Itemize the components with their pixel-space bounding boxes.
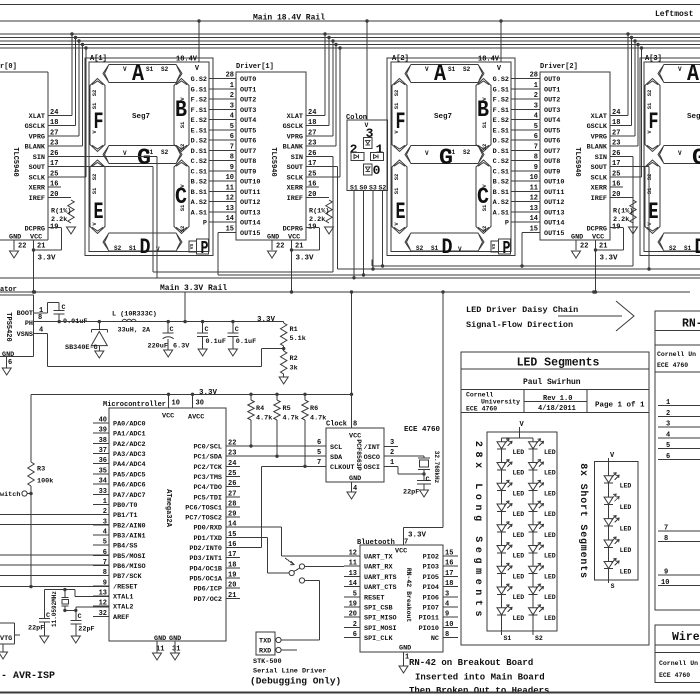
svg-text:PB5/MOSI: PB5/MOSI: [113, 553, 146, 561]
segment G of A[3]: [658, 146, 700, 164]
svg-text:DCPRG: DCPRG: [587, 226, 607, 234]
svg-text:SPI_MOSI: SPI_MOSI: [364, 625, 397, 633]
wire PH output node: [33, 320, 283, 323]
svg-text:S1: S1: [431, 245, 439, 252]
svg-text:LED: LED: [620, 504, 632, 511]
LED long segment row 8 left: [497, 584, 524, 601]
wire PD0/RXD to RN-42 UART_TX: [226, 527, 344, 556]
svg-text:R(1%): R(1%): [51, 208, 71, 216]
svg-text:S1: S1: [684, 245, 692, 252]
svg-text:Cornell: Cornell: [466, 392, 493, 399]
svg-text:LED: LED: [513, 490, 525, 497]
svg-text:13: 13: [530, 205, 538, 213]
svg-text:PCF8563P: PCF8563P: [355, 439, 362, 470]
voltage regulator U1 TPS5420: [0, 286, 48, 368]
svg-text:A.S2: A.S2: [493, 199, 509, 207]
svg-text:PIO4: PIO4: [423, 584, 439, 592]
svg-text:PC5/TDI: PC5/TDI: [193, 494, 222, 502]
LED long segment row 4 left: [497, 501, 524, 518]
clock chip U3 PCF8563P: [326, 421, 441, 494]
svg-text:S1: S1: [448, 149, 456, 156]
svg-text:B.S1: B.S1: [191, 189, 207, 197]
capacitor C 0.1uF #2: [227, 322, 256, 356]
svg-text:PD6/ICP: PD6/ICP: [193, 586, 222, 594]
svg-text:F.S1: F.S1: [191, 107, 207, 115]
svg-text:SB340E-G: SB340E-G: [65, 344, 98, 352]
svg-text:S2: S2: [481, 226, 488, 233]
svg-text:S2: S2: [379, 185, 387, 192]
svg-text:D: D: [442, 235, 453, 260]
svg-text:GND: GND: [154, 635, 166, 643]
svg-text:5: 5: [534, 123, 538, 131]
segment D of A[3]: [658, 233, 700, 251]
LED long segment row 6 left: [497, 543, 524, 560]
svg-text:V: V: [123, 150, 127, 157]
svg-text:S0: S0: [360, 185, 368, 192]
group 8x short segment LEDs: [577, 452, 638, 580]
svg-text:S2: S2: [161, 149, 169, 156]
connector RN-42 sheet pins 1-6: [658, 399, 700, 461]
svg-text:VCC: VCC: [162, 413, 174, 421]
inductor L 33uH: [112, 311, 157, 335]
svg-text:S1: S1: [481, 121, 488, 128]
svg-text:C.S1: C.S1: [191, 168, 207, 176]
svg-text:Wirele: Wirele: [672, 631, 700, 644]
svg-text:Serial Line Driver: Serial Line Driver: [253, 668, 326, 676]
segment A of A[1]: [103, 65, 182, 83]
svg-text:PA3/ADC3: PA3/ADC3: [113, 451, 146, 459]
svg-text:21: 21: [37, 243, 45, 251]
LED long segment row 5 right: [529, 522, 556, 539]
LED short segment row 3: [604, 516, 631, 533]
svg-text:6: 6: [317, 439, 321, 447]
svg-text:S3: S3: [369, 185, 377, 192]
LED long segment row 6 right: [529, 543, 556, 560]
svg-text:OUT7: OUT7: [544, 148, 560, 156]
svg-text:PD0/RXD: PD0/RXD: [193, 525, 222, 533]
svg-text:V: V: [678, 66, 682, 73]
wire colon S3 drop: [371, 191, 374, 271]
svg-text:OUT13: OUT13: [544, 209, 564, 217]
LED driver Driver[0] TLC5940: [0, 63, 86, 242]
svg-text:PC0/SCL: PC0/SCL: [193, 444, 222, 452]
capacitor C 22pF #2: [70, 610, 94, 643]
sheet LED Segments title block: [461, 352, 649, 645]
svg-text:E.S2: E.S2: [493, 117, 509, 125]
svg-text:OUT14: OUT14: [240, 220, 260, 228]
svg-text:S2: S2: [393, 90, 400, 97]
svg-text:18.4V: 18.4V: [176, 56, 198, 64]
svg-text:12: 12: [530, 195, 538, 203]
wire driver VCC pin 21 to 3.3V rail: [594, 240, 618, 294]
svg-text:OUT9: OUT9: [240, 168, 256, 176]
svg-text:3.3V: 3.3V: [38, 255, 57, 263]
svg-text:1: 1: [534, 82, 538, 90]
svg-text:PD1/TXD: PD1/TXD: [193, 535, 222, 543]
svg-text:LED: LED: [513, 449, 525, 456]
svg-text:21: 21: [599, 243, 607, 251]
LED long segment row 4 right: [529, 501, 556, 518]
svg-text:OUT11: OUT11: [544, 189, 564, 197]
wire Driver[0] SIN net: [48, 157, 157, 278]
svg-text:OUT11: OUT11: [240, 189, 260, 197]
svg-text:OUT5: OUT5: [240, 127, 256, 135]
svg-text:S2: S2: [179, 226, 186, 233]
svg-text:PA4/ADC4: PA4/ADC4: [113, 461, 146, 469]
svg-text:SIN: SIN: [291, 154, 303, 162]
svg-text:OUT8: OUT8: [240, 158, 256, 166]
wire OUT15 route Driver[2]: [520, 233, 540, 268]
LED driver Driver[2] TLC5940: [540, 63, 642, 242]
svg-text:PA6/ADC6: PA6/ADC6: [113, 482, 146, 490]
svg-text:0: 0: [373, 163, 381, 178]
svg-text:VCC: VCC: [592, 234, 604, 242]
svg-text:G.S1: G.S1: [493, 86, 509, 94]
svg-text:OUT7: OUT7: [240, 148, 256, 156]
svg-text:GSCLK: GSCLK: [587, 123, 608, 131]
svg-text:PB0/T0: PB0/T0: [113, 502, 137, 510]
svg-text:GND: GND: [2, 351, 14, 359]
wires AVR-ISP header: [0, 514, 109, 586]
svg-text:11: 11: [530, 184, 538, 192]
sheet Wireless title block: [655, 625, 700, 683]
svg-text:22pF: 22pF: [28, 625, 44, 633]
LED short segment row 1: [604, 473, 631, 490]
bluetooth module U4 RN-42 breakout: [344, 539, 458, 666]
svg-text:VCC: VCC: [288, 234, 300, 242]
svg-text:22: 22: [276, 243, 284, 251]
resistor R(1%) 2.2k on IREF: [51, 197, 76, 234]
svg-text:SDA: SDA: [330, 454, 343, 462]
svg-text:VCC: VCC: [395, 548, 407, 556]
svg-text:28x Long Segments: 28x Long Segments: [472, 441, 483, 621]
svg-text:ATmega32A: ATmega32A: [164, 489, 172, 528]
svg-text:IREF: IREF: [591, 195, 607, 203]
group 28x long segment LEDs: [472, 421, 557, 631]
svg-text:28: 28: [530, 72, 538, 80]
svg-text:R5: R5: [283, 405, 291, 413]
wire 3.3V logic line: [31, 389, 352, 462]
resistor R4 4.7k: [248, 394, 273, 447]
svg-text:Paul Swirhun: Paul Swirhun: [523, 378, 581, 387]
wire 3.3V to bluetooth: [404, 292, 443, 547]
svg-text:5.1k: 5.1k: [290, 335, 306, 343]
svg-text:C.S2: C.S2: [191, 158, 207, 166]
svg-text:LED: LED: [544, 532, 556, 539]
svg-text:VCC: VCC: [30, 234, 42, 242]
svg-text:VS: VS: [491, 244, 497, 250]
svg-text:1: 1: [230, 82, 234, 90]
svg-text:6: 6: [230, 133, 234, 141]
svg-text:OSCO: OSCO: [364, 454, 380, 462]
wire PD1/TXD to switch: [226, 537, 289, 573]
svg-text:2.2k: 2.2k: [613, 216, 629, 224]
svg-text:8x Short Segments: 8x Short Segments: [577, 463, 589, 579]
segment E of A[2]: [392, 160, 407, 234]
svg-text:PIO11: PIO11: [419, 615, 439, 623]
wire daisy chain SOUT2: [610, 167, 651, 271]
svg-text:RN-42 on Breakout Board: RN-42 on Breakout Board: [409, 658, 533, 668]
connector RN-42 sheet pins 7-8: [658, 525, 700, 544]
svg-text:S1: S1: [146, 149, 154, 156]
svg-text:PB7/SCK: PB7/SCK: [113, 573, 142, 581]
wire OUT15 route Driver[1]: [218, 233, 700, 276]
LED driver Driver[1] TLC5940: [236, 63, 340, 242]
svg-text:/INT: /INT: [364, 444, 380, 452]
segment A of A[2]: [405, 65, 484, 83]
svg-text:PC4/TDO: PC4/TDO: [193, 484, 222, 492]
svg-text:LED: LED: [513, 553, 525, 560]
wire daisy chain SOUT0-SIN1: [48, 157, 333, 273]
svg-text:BLANK: BLANK: [587, 144, 608, 152]
svg-text:S1: S1: [91, 187, 98, 194]
svg-text:LED: LED: [513, 532, 525, 539]
svg-text:PB6/MISO: PB6/MISO: [113, 563, 146, 571]
svg-text:SCL: SCL: [330, 444, 342, 452]
svg-text:12: 12: [226, 195, 234, 203]
svg-text:D: D: [140, 235, 151, 260]
svg-text:BLANK: BLANK: [25, 144, 46, 152]
svg-text:21: 21: [295, 243, 303, 251]
svg-text:PB4/SS: PB4/SS: [113, 543, 137, 551]
svg-text:Page 1 of 1: Page 1 of 1: [595, 402, 645, 410]
svg-text:OUT10: OUT10: [240, 179, 260, 187]
svg-text:TLC5940: TLC5940: [269, 147, 277, 176]
colon LED D0: [364, 164, 373, 175]
svg-text:4.7k: 4.7k: [256, 415, 272, 423]
svg-text:V: V: [425, 150, 429, 157]
colon LED D2: [351, 153, 364, 161]
svg-text:Seg7: Seg7: [434, 113, 452, 121]
svg-text:LED: LED: [513, 615, 525, 622]
wire bus drops to Driver[0]: [70, 32, 87, 177]
segment F of A[2]: [392, 79, 407, 152]
label AVR-ISP: [1, 671, 55, 682]
svg-text:B.S2: B.S2: [191, 179, 207, 187]
segment G of A[1]: [103, 146, 182, 164]
svg-text:ECE 4760: ECE 4760: [466, 406, 497, 413]
display A[1] Seg7: [85, 55, 213, 260]
svg-text:Seg7: Seg7: [687, 113, 700, 121]
svg-text:DCPRG: DCPRG: [283, 226, 303, 234]
segment F of A[1]: [90, 79, 105, 152]
svg-text:S: S: [611, 583, 615, 590]
svg-text:OUT2: OUT2: [240, 97, 256, 105]
LED short segment row 2: [604, 494, 631, 511]
LED long segment row 2 left: [497, 460, 524, 477]
svg-text:100k: 100k: [37, 478, 53, 486]
svg-text:18.4V: 18.4V: [478, 56, 500, 64]
wire colon S0 drop: [362, 191, 365, 277]
svg-text:2: 2: [534, 92, 538, 100]
svg-text:4: 4: [534, 113, 538, 121]
svg-text:OUT15: OUT15: [240, 230, 260, 238]
svg-text:RN-42 Breakout: RN-42 Breakout: [405, 568, 412, 623]
wire driver GND pin 22: [572, 240, 589, 258]
svg-text:A.S1: A.S1: [493, 209, 509, 217]
svg-text:OUT3: OUT3: [544, 107, 560, 115]
svg-text:ECE 4760: ECE 4760: [659, 672, 690, 679]
svg-text:DCPRG: DCPRG: [25, 226, 45, 234]
wire DCPRG to VCC: [596, 228, 624, 251]
LED long segment row 9 left: [497, 605, 524, 622]
svg-text:GND: GND: [349, 475, 361, 483]
svg-text:SPI_CSB: SPI_CSB: [364, 605, 393, 613]
svg-text:Cornell Un: Cornell Un: [657, 351, 696, 358]
svg-text:Colon: Colon: [346, 114, 367, 122]
svg-text:32.768kHz: 32.768kHz: [433, 451, 440, 484]
svg-text:S1: S1: [448, 66, 456, 73]
svg-text:10: 10: [226, 174, 234, 182]
svg-text:S2: S2: [669, 245, 677, 252]
svg-text:F.S2: F.S2: [191, 97, 207, 105]
svg-text:OSCI: OSCI: [364, 464, 380, 472]
svg-text:A: A: [687, 61, 699, 87]
svg-text:Then Broken Out to Headers: Then Broken Out to Headers: [409, 686, 549, 696]
svg-text:SIN: SIN: [595, 154, 607, 162]
svg-text:RN-42: RN-42: [682, 318, 700, 331]
svg-text:E: E: [94, 199, 104, 225]
svg-text:PA0/ADC0: PA0/ADC0: [113, 421, 146, 429]
svg-text:G.S1: G.S1: [191, 86, 207, 94]
ground ISP: [0, 644, 8, 659]
svg-text:NC: NC: [431, 635, 439, 643]
svg-text:VPRG: VPRG: [591, 134, 607, 142]
svg-text:10: 10: [530, 174, 538, 182]
wire SDA net: [240, 449, 326, 457]
wires A[2] pins to Driver[2] OUT0-OUT14: [493, 72, 540, 234]
ground clock: [347, 492, 356, 499]
svg-text:XTAL2: XTAL2: [113, 604, 133, 612]
capacitor C 22pF #1: [28, 590, 50, 643]
svg-text:OUT15: OUT15: [544, 230, 564, 238]
svg-text:P: P: [201, 239, 209, 259]
node Main 18.4V Rail: [0, 14, 700, 23]
segment F of A[3]: [645, 79, 660, 152]
svg-text:Cornell Un: Cornell Un: [659, 660, 698, 667]
svg-text:RESET: RESET: [364, 594, 384, 602]
segment D of A[1]: [103, 233, 182, 251]
svg-text:XTAL1: XTAL1: [113, 594, 133, 602]
svg-text:PD4/OC1B: PD4/OC1B: [189, 565, 222, 573]
svg-text:PA2/ADC2: PA2/ADC2: [113, 441, 146, 449]
wire switch to UART_RX: [305, 566, 344, 568]
svg-text:PIO2: PIO2: [423, 554, 439, 562]
LED long segment row 5 left: [497, 522, 524, 539]
svg-text:LED Driver Daisy Chain: LED Driver Daisy Chain: [466, 305, 578, 315]
segment A of A[3]: [658, 65, 700, 83]
svg-text:VPRG: VPRG: [29, 134, 45, 142]
svg-text:/RESET: /RESET: [113, 583, 137, 591]
svg-text:OUT5: OUT5: [544, 127, 560, 135]
svg-text:PD2/INT0: PD2/INT0: [189, 545, 222, 553]
svg-text:D.S1: D.S1: [493, 148, 509, 156]
svg-text:AVCC: AVCC: [188, 414, 204, 422]
svg-text:8: 8: [230, 154, 234, 162]
wire 3.3V rail riser to logic: [350, 292, 353, 428]
svg-text:TLC5940: TLC5940: [11, 147, 19, 176]
svg-text:UART_TX: UART_TX: [364, 554, 393, 562]
svg-text:S1: S1: [393, 187, 400, 194]
svg-text:4: 4: [230, 113, 234, 121]
svg-text:TLC5940: TLC5940: [573, 147, 581, 176]
note LED driver daisy chain direction: [466, 301, 634, 331]
svg-text:D: D: [695, 235, 700, 260]
svg-text:S1: S1: [393, 102, 400, 109]
svg-text:PC6/TOSC1: PC6/TOSC1: [185, 504, 222, 512]
svg-text:C: C: [78, 613, 82, 621]
svg-text:LED: LED: [544, 615, 556, 622]
svg-text:S2: S2: [463, 149, 471, 156]
svg-text:ator: ator: [0, 286, 17, 294]
svg-text:LED: LED: [544, 490, 556, 497]
LED long segment row 7 left: [497, 563, 524, 580]
svg-text:Clock: Clock: [326, 421, 347, 429]
svg-text:D.S1: D.S1: [191, 148, 207, 156]
svg-text:10: 10: [172, 400, 180, 408]
ground MCU GND pins: [153, 653, 180, 660]
svg-text:S1: S1: [179, 121, 186, 128]
colon LED D1: [371, 153, 384, 161]
svg-text:11: 11: [226, 184, 234, 192]
segment E of A[3]: [645, 160, 660, 234]
svg-text:0.1uF: 0.1uF: [206, 338, 226, 346]
serial line driver STK-500: [250, 632, 341, 687]
svg-text:2.2k: 2.2k: [51, 216, 67, 224]
svg-text:LED: LED: [544, 511, 556, 518]
svg-text:4/18/2011: 4/18/2011: [538, 405, 576, 413]
LED long segment row 1 right: [529, 439, 556, 456]
wire 3.3V rail to output node: [184, 292, 186, 322]
resistor R5 4.7k: [274, 394, 299, 458]
LED long segment row 9 right: [529, 605, 556, 622]
resistor R2 3k: [279, 349, 297, 384]
svg-text:OUT4: OUT4: [544, 117, 560, 125]
svg-text:AREF: AREF: [113, 614, 129, 622]
svg-text:PC3/TMS: PC3/TMS: [193, 474, 222, 482]
ground diode: [95, 351, 104, 358]
svg-text:OUT1: OUT1: [544, 86, 560, 94]
svg-text:OUT8: OUT8: [544, 158, 560, 166]
svg-text:OUT3: OUT3: [240, 107, 256, 115]
svg-text:1: 1: [376, 142, 384, 157]
svg-text:13: 13: [226, 205, 234, 213]
resistor R1 5.1k: [257, 316, 306, 350]
svg-text:E: E: [649, 199, 659, 225]
svg-text:R(1%): R(1%): [613, 208, 633, 216]
display A[2] Seg7: [387, 55, 515, 260]
svg-text:VSNS: VSNS: [17, 331, 33, 339]
crystal Y1 11.0592MHz: [44, 588, 109, 627]
svg-text:S1: S1: [146, 66, 154, 73]
svg-text:S2: S2: [114, 245, 122, 252]
display A[3] Seg7: [640, 55, 700, 260]
svg-text:Driver[1]: Driver[1]: [236, 63, 274, 71]
svg-text:9: 9: [534, 164, 538, 172]
wire 18.4V feed to display A[1]: [198, 21, 200, 62]
capacitor C 22pF clock: [403, 474, 431, 497]
svg-text:S1: S1: [91, 102, 98, 109]
svg-text:BLANK: BLANK: [283, 144, 304, 152]
svg-text:9: 9: [230, 164, 234, 172]
svg-text:PD3/INT1: PD3/INT1: [189, 555, 222, 563]
svg-text:4.7k: 4.7k: [310, 415, 326, 423]
svg-text:R6: R6: [310, 405, 318, 413]
svg-text:3.3V: 3.3V: [199, 389, 218, 397]
svg-text:VTG: VTG: [0, 635, 12, 643]
capacitor C 0.01uF bootstrap: [48, 303, 88, 326]
wire driver GND pin 22: [10, 240, 27, 258]
